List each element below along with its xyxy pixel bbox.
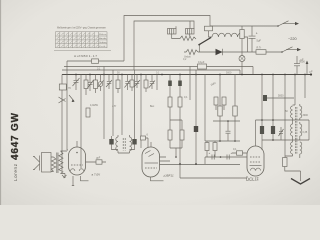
resistor detector pair (214, 97, 218, 105)
transformer winding box A (168, 29, 177, 35)
wire AVC bus y66.5 (64, 67, 253, 75)
wire rail x273 (272, 75, 274, 141)
svg-text:μμF: μμF (96, 157, 101, 160)
wire feedback line y157 (205, 157, 247, 164)
voltage table values (57, 33, 98, 47)
tube V2 cathode leads (151, 177, 164, 181)
trimmer capacitor Tr1 (73, 78, 80, 86)
trimmer arrows output (279, 127, 284, 140)
svg-text:Bec: Bec (150, 105, 155, 108)
trimmer capacitor Tr3 (98, 82, 103, 87)
wire grid bus y61 (67, 60, 124, 62)
terminal marks below speaker (62, 175, 67, 178)
wire line y141 (205, 140, 240, 142)
wire dial lamp loop inner (134, 21, 194, 70)
capacitor C electrolytic arrow (306, 64, 308, 75)
capacitor C IF right (132, 139, 136, 145)
speaker transformer primary (52, 157, 56, 172)
wire output line y140 (262, 120, 309, 140)
speaker transformer secondary (59, 151, 63, 174)
capacitor C filter 5000 (294, 56, 300, 75)
bus junction dots (75, 73, 312, 75)
output transformer winding pair 1 (291, 75, 295, 121)
resistor on rail x86 (85, 75, 87, 96)
capacitor dark on rail x196 (195, 70, 197, 164)
voltage table (56, 32, 108, 48)
wire dial lamp loop outer (124, 16, 210, 62)
capacitor grid cap tube V2 (141, 136, 146, 140)
antenna band switch contacts (59, 95, 75, 103)
tube V3 electrodes (250, 157, 261, 162)
ground chassis symbol (291, 179, 310, 185)
svg-text:0,1: 0,1 (233, 148, 237, 151)
small box on mains line (205, 26, 213, 31)
capacitor electrolytic fb2 (227, 155, 229, 160)
svg-text:4,0/2W: 4,0/2W (90, 104, 99, 107)
output transformer winding pair 2 (291, 120, 293, 140)
capacitor coupling box on grid bus (92, 59, 99, 63)
svg-text:3000: 3000 (303, 114, 309, 117)
wire rail x141 (140, 75, 142, 149)
svg-text:+: + (209, 151, 211, 155)
wire rail x76 with trimmer (75, 75, 77, 91)
tube V3 top lead (255, 120, 257, 146)
tube V2 electrodes (145, 151, 154, 157)
wire antenna rail x67 (66, 61, 68, 150)
wire transformer bottom (285, 156, 300, 158)
svg-text:Schirm: Schirm (99, 41, 106, 44)
capacitor 47pF (96, 160, 102, 164)
trimmer capacitor Tr2 (88, 75, 94, 92)
svg-text:Lorenz: Lorenz (13, 163, 18, 181)
wire bus y70 (62, 70, 240, 75)
tube V1 UCH11 envelope (69, 147, 86, 175)
speaker cone (33, 156, 40, 171)
wire speaker connections (51, 150, 68, 178)
wire bottom bus y164 (160, 164, 241, 166)
wire rail x285 (284, 75, 286, 158)
svg-text:Röhre: Röhre (99, 33, 107, 36)
resistor heater dropper section (86, 108, 90, 117)
wire rail x104 (103, 67, 105, 140)
resistor R surge (256, 50, 266, 55)
svg-text:5000: 5000 (278, 95, 284, 98)
resistor R lamp (241, 26, 243, 52)
misc value labels on buses (97, 58, 232, 75)
wire transformer stubs (172, 21, 190, 39)
IF transformer secondary coil (130, 135, 132, 153)
resistor cathode bias (283, 158, 287, 167)
wire rail x190 (189, 67, 191, 101)
tube V1 cathode leads (72, 176, 89, 186)
svg-text:5μF: 5μF (257, 39, 262, 43)
wire rail x81 (80, 75, 82, 169)
trimmer capacitor Tr6 (134, 75, 140, 89)
resistor pair rails x170 x180 upper (170, 75, 180, 165)
speaker transformer core (57, 153, 58, 174)
svg-text:UCL11: UCL11 (246, 176, 260, 182)
output transformer core (296, 107, 297, 154)
svg-text:0,1: 0,1 (184, 96, 188, 99)
wire rail x134 (134, 70, 136, 136)
resistor on rail x118 (117, 75, 119, 94)
wire rail x113 (112, 70, 114, 136)
model designation text 4647GW (10, 112, 21, 181)
tube V1 electrodes (76, 152, 78, 154)
wire main bus y74.5 (62, 74, 312, 76)
IF transformer core (123, 138, 125, 151)
tube V3 UCL11 envelope (247, 146, 264, 176)
svg-text:a 7,0V: a 7,0V (92, 173, 101, 177)
svg-text:0,1μF: 0,1μF (198, 61, 205, 64)
wire rail x62 (61, 75, 63, 169)
resistor on rail x220 (219, 75, 221, 142)
wire bottom return y178 (180, 164, 247, 178)
svg-text:J.Tr: J.Tr (112, 105, 116, 108)
wire rail x205 (204, 75, 206, 142)
tube V2 UBF11 envelope (142, 147, 160, 177)
wire mains line bottom (198, 51, 282, 53)
wire speaker line (267, 97, 294, 99)
resistor on rail x235 (234, 75, 236, 142)
wire output line y120 (256, 119, 310, 121)
wire IF bottom joins (112, 136, 135, 153)
rectifier diode D1 (216, 49, 223, 55)
svg-text:4647 GW: 4647 GW (10, 112, 21, 160)
trimmer capacitor Tr5 (125, 75, 131, 91)
svg-text:Anode: Anode (99, 37, 107, 40)
NTC resistor zigzag (184, 49, 198, 54)
IF transformer primary coil (116, 135, 118, 153)
trimmer capacitor Tr7 (149, 75, 155, 90)
svg-text:R.Tr: R.Tr (257, 47, 262, 50)
wire rail x122 (121, 75, 123, 136)
svg-text:μF: μF (310, 70, 313, 74)
tube V3 grid lead (232, 152, 247, 154)
svg-text:+: + (256, 32, 258, 36)
wire mains line top (210, 25, 278, 27)
mains plug arrow bottom (286, 49, 297, 51)
wire rail x157 (156, 75, 158, 91)
transformer winding box B (186, 29, 195, 35)
resistor on rail x132 (131, 75, 133, 92)
capacitor C block 0.1uF (198, 64, 207, 69)
svg-text:5000: 5000 (226, 72, 232, 75)
svg-text:μF: μF (301, 58, 304, 62)
output transformer winding pair 3 (291, 140, 293, 156)
oscillator winding zigzag (180, 36, 196, 41)
trimmer capacitor Tr4 (106, 75, 112, 90)
wire tube V1 anode out (86, 161, 107, 163)
heater dropper loops (212, 33, 244, 37)
wire rail x305 (304, 75, 306, 99)
svg-text:Kath.: Kath. (99, 45, 106, 48)
capacitor C mains electrolytic (249, 26, 256, 52)
capacitor antenna series (59, 84, 66, 90)
svg-text:▵UBF11: ▵UBF11 (163, 174, 174, 178)
capacitor C IF left (109, 139, 113, 145)
wire detector line y121 (213, 120, 240, 122)
capacitor electrolytic fb1 (212, 155, 214, 160)
mains plug arrow top (283, 23, 295, 25)
speaker magnet box (42, 153, 52, 173)
svg-text:0,35: 0,35 (303, 131, 308, 134)
switch S1a (278, 21, 289, 26)
svg-text:AufNBF1-17: AufNBF1-17 (74, 54, 97, 58)
table bottom separator line (54, 49, 111, 51)
capacitor on x228 (226, 121, 231, 141)
resistor on rail x146 (145, 75, 147, 93)
parallel RC pair lower (170, 120, 182, 157)
switch S1b (282, 47, 293, 52)
capacitor dark on rail x262 (261, 75, 263, 151)
svg-text:Meßwerte gem. bei 220V~ geg. C: Meßwerte gem. bei 220V~ geg. Chassis gem… (57, 27, 107, 30)
svg-text:~220: ~220 (288, 37, 297, 41)
switch arm thick (199, 38, 212, 46)
dial lamp La (241, 52, 243, 75)
resistor under detector line (207, 141, 215, 157)
resistor on rail x95 (95, 75, 97, 94)
